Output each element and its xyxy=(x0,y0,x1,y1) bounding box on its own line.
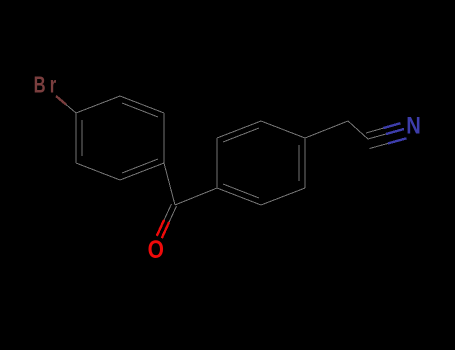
bond carbonyl-W1 xyxy=(175,188,217,205)
wire V3-V4 xyxy=(163,113,165,163)
wire W3-W4 xyxy=(261,121,305,138)
wire W1-W2 xyxy=(216,138,218,188)
nitrile triple bond gray halves xyxy=(366,128,388,148)
svg-text:N: N xyxy=(406,112,421,139)
wire W5-W6 xyxy=(261,188,305,205)
wire W4-W5 aromatic inner xyxy=(298,145,300,181)
wire V1-V2 xyxy=(76,96,120,113)
nitrile triple bond blue halves xyxy=(383,123,406,143)
wire W4-W5 aromatic outer xyxy=(304,138,306,188)
svg-text:Br: Br xyxy=(34,73,61,98)
wire W2-W3 aromatic inner xyxy=(223,128,259,142)
wire V4-V5 aromatic inner xyxy=(122,159,158,173)
carbonyl C=O gray halves xyxy=(164,204,171,220)
wire V2-V3 aromatic inner xyxy=(122,103,158,117)
wire V2-V3 aromatic outer xyxy=(120,96,164,113)
wire W6-W1 aromatic outer xyxy=(217,188,261,205)
bond Br-C1 maroon half xyxy=(56,96,66,105)
wire W2-W3 aromatic outer xyxy=(217,121,261,138)
benzene ring 1 (left) xyxy=(76,96,164,180)
benzene ring 2 (right) xyxy=(217,121,305,205)
bond V4-carbonyl xyxy=(164,163,175,205)
bond CH2-nitrile C xyxy=(348,121,368,139)
wire V6-V1 aromatic inner xyxy=(81,120,83,156)
svg-text:O: O xyxy=(148,235,164,263)
bond W4-CH2 xyxy=(305,121,348,138)
bond Br-C1 gray half xyxy=(66,105,76,114)
wire W6-W1 aromatic inner xyxy=(223,184,259,198)
wire V5-V6 xyxy=(76,163,120,180)
wire V4-V5 aromatic outer xyxy=(120,163,164,180)
carbonyl C=O red halves xyxy=(157,220,164,236)
wire V6-V1 aromatic outer xyxy=(75,113,77,163)
